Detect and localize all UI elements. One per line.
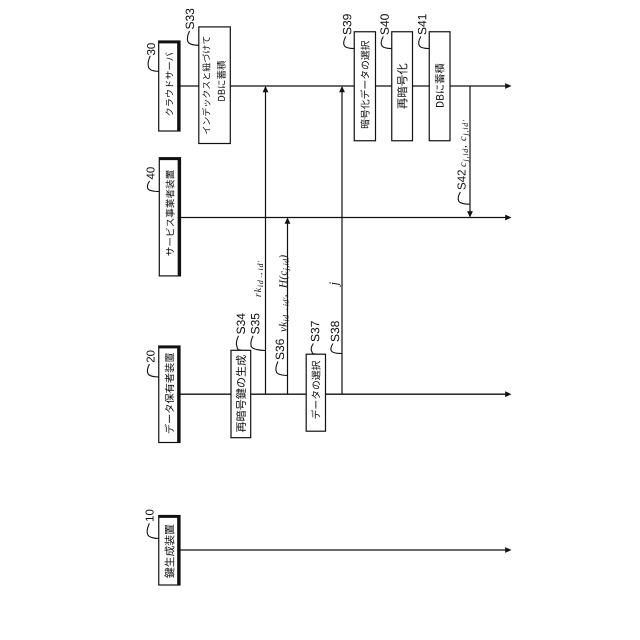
process box S41: store in DB (on cloud lifeline)	[429, 32, 450, 141]
tilde connector for S37	[311, 344, 316, 355]
tilde connector for S36	[276, 362, 287, 376]
tilde connector for 10	[147, 523, 159, 538]
reference numeral 10	[146, 510, 154, 521]
step label S42	[458, 170, 466, 189]
step label S40	[380, 14, 389, 34]
tilde connector for S42	[458, 192, 469, 204]
tilde connector for S38	[331, 344, 342, 354]
tilde connector for 30	[148, 56, 159, 72]
lifeline of service provider device 40	[181, 217, 507, 219]
lifeline of key generation device 10	[180, 549, 506, 551]
step label S41	[418, 14, 427, 34]
entity box 40: service provider device	[159, 158, 180, 276]
message arrow S35: rk from data owner 20 to cloud server 30	[265, 87, 267, 394]
process box S33: store in DB tied to index (on cloud lifeline)	[199, 27, 231, 144]
tilde connector for S40	[381, 37, 391, 49]
tilde connector for S41	[419, 37, 429, 49]
step label S35	[251, 314, 260, 334]
entity box 10: key generation device	[159, 516, 180, 586]
reference numeral 30	[147, 43, 155, 55]
message arrow S38: index j from data owner 20 to cloud server 30	[341, 87, 343, 394]
step label S33	[186, 9, 195, 29]
message arrow S42: re-encrypted data from cloud server 30 to service provider 40	[469, 86, 471, 217]
tilde connector for 40	[147, 181, 159, 192]
process box S34: generate re-encryption key (on data owner lifeline)	[231, 350, 251, 437]
reference numeral 40	[147, 167, 155, 179]
process box S39: select encrypted data (on cloud lifeline)	[354, 32, 375, 141]
message label vk_id->id', H(c_j,id)	[279, 255, 290, 332]
message label c_j,id , c_j,id'	[461, 120, 470, 167]
entity box 30: cloud server	[159, 41, 180, 131]
lifeline of data owner device 20	[180, 393, 506, 395]
message label rk_id->id'	[254, 261, 263, 297]
step label S36	[276, 339, 285, 359]
process box S37: select data (on data owner lifeline)	[306, 354, 325, 431]
step label S34	[237, 313, 246, 334]
tilde connector for S34	[236, 336, 241, 350]
entity box 20: data owner device	[159, 346, 180, 443]
tilde connector for S35	[251, 336, 265, 351]
tilde connector for 20	[147, 364, 159, 377]
message label j	[329, 282, 340, 287]
step label S37	[311, 321, 320, 341]
process box S40: re-encrypt (on cloud lifeline)	[392, 32, 413, 141]
step label S38	[331, 321, 340, 341]
step label S39	[343, 14, 352, 34]
reference numeral 20	[147, 351, 155, 363]
tilde connector for S39	[344, 37, 354, 49]
message arrow S36: vk and hash from data owner 20 to service provider 40	[287, 219, 289, 395]
lifeline of cloud server 30	[180, 85, 506, 87]
tilde connector for S33	[187, 31, 198, 45]
